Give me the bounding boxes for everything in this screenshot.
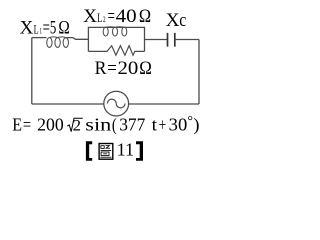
svg-text:=: = [108, 6, 115, 27]
wire: box to capacitor [145, 39, 168, 41]
inductor XL2 (3 loops hanging from top edge) [103, 27, 127, 36]
svg-text:Ω: Ω [139, 58, 152, 79]
svg-text:2: 2 [73, 118, 81, 135]
svg-text:): ) [193, 115, 199, 135]
svg-text:+: + [159, 115, 167, 135]
caption: right lenticular bracket [136, 141, 143, 161]
AC source E (circle with sine) [104, 91, 129, 116]
capacitor Xc plates [168, 33, 175, 47]
svg-text:R: R [95, 58, 107, 79]
caption: hanzi TU (figure) drawn as strokes [99, 144, 113, 160]
svg-text:X: X [83, 6, 97, 27]
svg-text:t: t [152, 115, 158, 135]
wire: top-left horizontal from corner to inductor L1 [32, 37, 47, 39]
svg-text:sin: sin [85, 115, 111, 135]
svg-text:L: L [34, 22, 39, 36]
svg-text:200: 200 [37, 115, 64, 135]
svg-text:377: 377 [119, 115, 145, 135]
svg-text:X: X [20, 17, 34, 38]
svg-text:Ω: Ω [58, 17, 69, 38]
radical sign of sqrt(2) [67, 118, 83, 131]
wire: bottom right segment [129, 103, 199, 105]
wire: capacitor to top-right corner [175, 39, 199, 41]
svg-text:(: ( [112, 115, 117, 135]
wire: from L1 to parallel box [66, 38, 89, 40]
svg-text:5: 5 [50, 17, 56, 38]
svg-text:=: = [23, 115, 31, 135]
parallel box (L2 top branch, R bottom branch) [88, 27, 144, 51]
svg-text:X: X [166, 10, 180, 31]
resistor R (zigzag on bottom edge of box) [88, 46, 144, 56]
svg-text:L: L [97, 11, 102, 25]
wire: bottom left segment [32, 103, 104, 105]
svg-text:11: 11 [117, 140, 135, 160]
svg-text:E: E [12, 115, 22, 135]
svg-text:=: = [43, 17, 50, 38]
svg-text:20: 20 [118, 58, 139, 79]
wire: right vertical [198, 40, 200, 105]
caption: left lenticular bracket [86, 141, 92, 161]
svg-text:°: ° [187, 114, 193, 129]
svg-text:30: 30 [169, 115, 188, 135]
inductor XL1 (3 loops) [47, 37, 69, 47]
svg-text:=: = [107, 58, 117, 79]
wire: left vertical [31, 38, 33, 104]
svg-text:2: 2 [103, 14, 106, 24]
svg-text:c: c [179, 10, 186, 31]
svg-text:Ω: Ω [139, 6, 151, 27]
svg-text:40: 40 [116, 6, 137, 27]
